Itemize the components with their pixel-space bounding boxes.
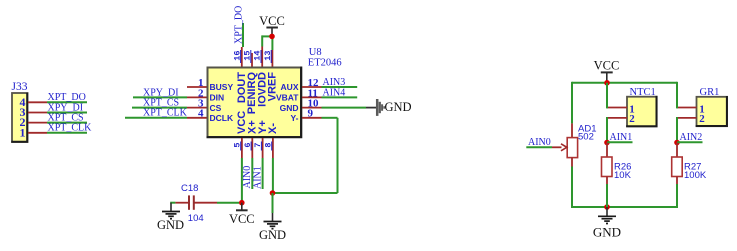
resistor R26 10K [602, 143, 632, 208]
U8 pin 10 GND [280, 98, 322, 113]
ground left of C18 [157, 203, 184, 232]
junction pin8/Y- [270, 190, 276, 196]
IC U8 body [207, 47, 342, 137]
svg-text:GND: GND [593, 225, 621, 240]
NTC1 pin 1 wire [607, 83, 627, 109]
wiper arrow AD1 [561, 144, 567, 151]
power VCC below pin5 [229, 203, 255, 227]
U8 pin 11 VBAT [276, 87, 322, 102]
svg-text:XPT_DO: XPT_DO [234, 6, 245, 44]
svg-text:XPT_CLK: XPT_CLK [143, 108, 188, 119]
svg-text:ET2046: ET2046 [308, 58, 342, 69]
junction bottom rail [604, 204, 610, 210]
svg-text:1: 1 [20, 125, 26, 139]
svg-text:4: 4 [198, 108, 204, 120]
svg-text:AIN1: AIN1 [610, 132, 633, 143]
svg-text:VCC: VCC [594, 58, 620, 72]
U8 pin 8 X- [263, 123, 279, 158]
capacitor C18 [181, 183, 204, 224]
wire junction to ground [272, 193, 274, 213]
wire C18 left lead [170, 202, 188, 204]
potentiometer AD1 502 [567, 124, 596, 158]
wire net XPT_CLK to pin4 [125, 108, 188, 119]
wire/label net AIN0 pin6 [242, 158, 253, 189]
svg-text:GND: GND [157, 218, 184, 232]
wire/label net AIN1 pin7 [253, 158, 264, 189]
U8 pin 4 DCLK [187, 108, 234, 123]
svg-text:AIN2: AIN2 [680, 132, 703, 143]
wire C18 right lead [195, 202, 240, 204]
svg-text:2: 2 [699, 113, 705, 125]
U8 pin 5 VCC [232, 111, 248, 158]
NTC1 pin 2 wire [607, 117, 627, 143]
svg-text:CS: CS [210, 103, 222, 113]
GR1 pin 1 wire [677, 82, 697, 109]
junction pin5/C18 [239, 200, 245, 206]
svg-text:GND: GND [259, 228, 286, 242]
svg-text:J33: J33 [12, 81, 28, 93]
ground bottom right section [593, 207, 621, 240]
wire/label net AIN3 [322, 77, 358, 88]
wire top rail [572, 82, 677, 84]
U8 pin 1 BUSY [187, 77, 233, 92]
wire J33.1 [28, 132, 87, 134]
U8 pin 2 DIN [187, 87, 224, 102]
power VCC above U8 [259, 14, 285, 36]
junction at VCC [269, 34, 275, 40]
U8 pin 13 VREF [263, 50, 279, 101]
wire pin9 down to junction [273, 118, 338, 193]
svg-text:502: 502 [578, 132, 594, 143]
svg-text:DIN: DIN [210, 93, 225, 103]
svg-text:AIN3: AIN3 [323, 77, 346, 88]
ground below U8 [259, 213, 286, 242]
wire left branch upper [571, 82, 573, 138]
wire net XPY_DI to pin2 [133, 87, 187, 98]
U8 pin 9 Y- [290, 108, 321, 123]
U8 pin 6 X+ [243, 120, 259, 158]
power VCC right section [594, 58, 620, 83]
wire/label net AIN4 [322, 87, 358, 98]
svg-text:VCC: VCC [259, 14, 285, 28]
junction/label net AIN2 [674, 132, 702, 145]
svg-text:10K: 10K [614, 170, 632, 181]
junction/label net AIN1 [604, 132, 632, 145]
wire net XPT_CS to pin3 [132, 98, 187, 109]
svg-text:VCC: VCC [229, 212, 255, 226]
U8 pin 7 Y+ [253, 120, 269, 158]
resistor R27 100K [672, 143, 707, 209]
svg-text:AIN4: AIN4 [323, 87, 346, 98]
svg-text:U8: U8 [309, 47, 322, 58]
svg-text:AIN1: AIN1 [253, 166, 264, 189]
thermistor NTC1 [626, 87, 657, 126]
connector J33 [11, 81, 27, 142]
wire pin5 down [241, 158, 243, 203]
photoresistor GR1 [696, 87, 727, 126]
svg-text:BUSY: BUSY [210, 82, 234, 92]
wire J33.4 [28, 101, 87, 103]
wire J33.2 [28, 122, 87, 124]
wire/label net XPT_DO pin16 [234, 6, 245, 47]
svg-text:XPT_CLK: XPT_CLK [48, 123, 93, 134]
U8 pin 3 CS [187, 98, 222, 113]
svg-text:100K: 100K [684, 170, 707, 181]
svg-text:GND: GND [385, 100, 412, 114]
wire/label net AIN0 to AD1 [526, 137, 561, 148]
junction VCC rail [604, 80, 610, 86]
U8 pin 12 AUX [281, 77, 322, 92]
svg-text:DCLK: DCLK [210, 113, 234, 123]
wire left branch lower [571, 158, 573, 208]
wire pin8 down [272, 158, 274, 193]
svg-text:Y-: Y- [290, 113, 298, 123]
svg-text:VBAT: VBAT [276, 93, 299, 103]
ground right (rotated) [377, 99, 411, 116]
svg-text:AUX: AUX [281, 82, 299, 92]
svg-text:GND: GND [280, 103, 299, 113]
U8 pin 15 PENIRQ [243, 50, 259, 114]
GR1 pin 2 wire [677, 117, 697, 143]
wire bottom rail [572, 206, 677, 208]
wire VCC to pins 14,13 [262, 35, 272, 50]
svg-text:2: 2 [629, 113, 635, 125]
U8 pin 16 DOUT [232, 47, 248, 103]
svg-text:9: 9 [308, 108, 314, 120]
U8 pin 14 IOVDD [253, 47, 269, 107]
wire J33.3 [28, 112, 87, 114]
wire pin10 to GND [322, 107, 377, 109]
svg-text:AIN0: AIN0 [528, 137, 551, 148]
svg-text:104: 104 [188, 213, 204, 224]
svg-text:C18: C18 [181, 183, 198, 194]
svg-text:X-: X- [267, 123, 279, 134]
